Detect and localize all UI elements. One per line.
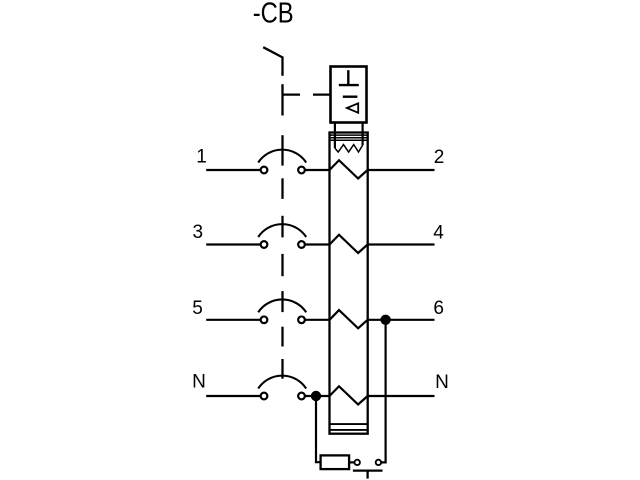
- svg-text:-CB: -CB: [253, 0, 294, 30]
- trip unit triangle: [347, 103, 358, 113]
- contact circle pole3 left: [261, 241, 268, 248]
- junction node pole6: [380, 315, 390, 325]
- test button stem: [366, 471, 368, 479]
- trip linkage (dashed vertical): [281, 84, 283, 379]
- test wire down from pole6 junction: [381, 320, 386, 463]
- contact circle poleN left: [261, 393, 268, 400]
- contact circle poleN right: [298, 393, 305, 400]
- trip unit tee symbol: [339, 70, 359, 85]
- residual-current trip unit box: [331, 67, 367, 123]
- svg-text:5: 5: [192, 298, 203, 319]
- thermal element pole1: [330, 160, 368, 178]
- contact arc pole3: [258, 224, 306, 237]
- test wire down from N junction: [316, 396, 321, 462]
- thermal element pole3: [330, 235, 368, 253]
- contact circle pole1 right: [298, 167, 305, 174]
- contact circle pole1 left: [261, 167, 268, 174]
- wire pole5 left: [206, 319, 264, 321]
- wire pole1 left: [206, 169, 264, 171]
- wire pole3 right: [368, 243, 435, 245]
- wire pole1 right: [368, 169, 435, 171]
- trip unit bar: [343, 95, 358, 97]
- contact circle pole5 left: [261, 316, 268, 323]
- junction node poleN: [311, 391, 321, 401]
- wire poleN mid: [302, 395, 331, 397]
- body bottom hatch lines: [330, 424, 368, 430]
- operating handle: [263, 47, 282, 76]
- thermal element poleN: [330, 386, 368, 404]
- breaker body rectangle: [330, 133, 368, 434]
- svg-text:6: 6: [433, 298, 444, 319]
- test contact circle right: [376, 460, 381, 465]
- svg-text:1: 1: [196, 147, 207, 168]
- body top hatch lines: [330, 135, 368, 140]
- wire pole5 right: [368, 319, 435, 321]
- wire resistor to test contact: [349, 461, 357, 463]
- wire pole1 mid: [302, 169, 331, 171]
- wire pole5 mid: [302, 319, 331, 321]
- wire poleN left: [206, 395, 264, 397]
- wire poleN right: [368, 395, 435, 397]
- svg-text:N: N: [192, 371, 206, 392]
- contact arc pole5: [258, 299, 306, 312]
- svg-text:2: 2: [434, 147, 445, 168]
- wire pole3 left: [206, 243, 264, 245]
- svg-text:N: N: [435, 372, 449, 393]
- svg-text:3: 3: [193, 222, 204, 243]
- svg-text:4: 4: [433, 222, 444, 243]
- sensing coil sawtooth: [335, 145, 363, 152]
- contact circle pole5 right: [298, 316, 305, 323]
- test resistor: [321, 455, 350, 469]
- test contact circle left: [355, 460, 360, 465]
- connecting stub right (trip unit to body): [362, 123, 364, 146]
- thermal element pole5: [330, 310, 368, 328]
- contact arc pole1: [258, 150, 306, 163]
- dashed link to residual-current unit: [283, 93, 301, 95]
- connecting stub left (trip unit to body): [334, 123, 336, 149]
- wire pole3 mid: [302, 243, 331, 245]
- test button bar: [353, 469, 383, 471]
- contact arc poleN: [258, 376, 306, 389]
- contact circle pole3 right: [298, 241, 305, 248]
